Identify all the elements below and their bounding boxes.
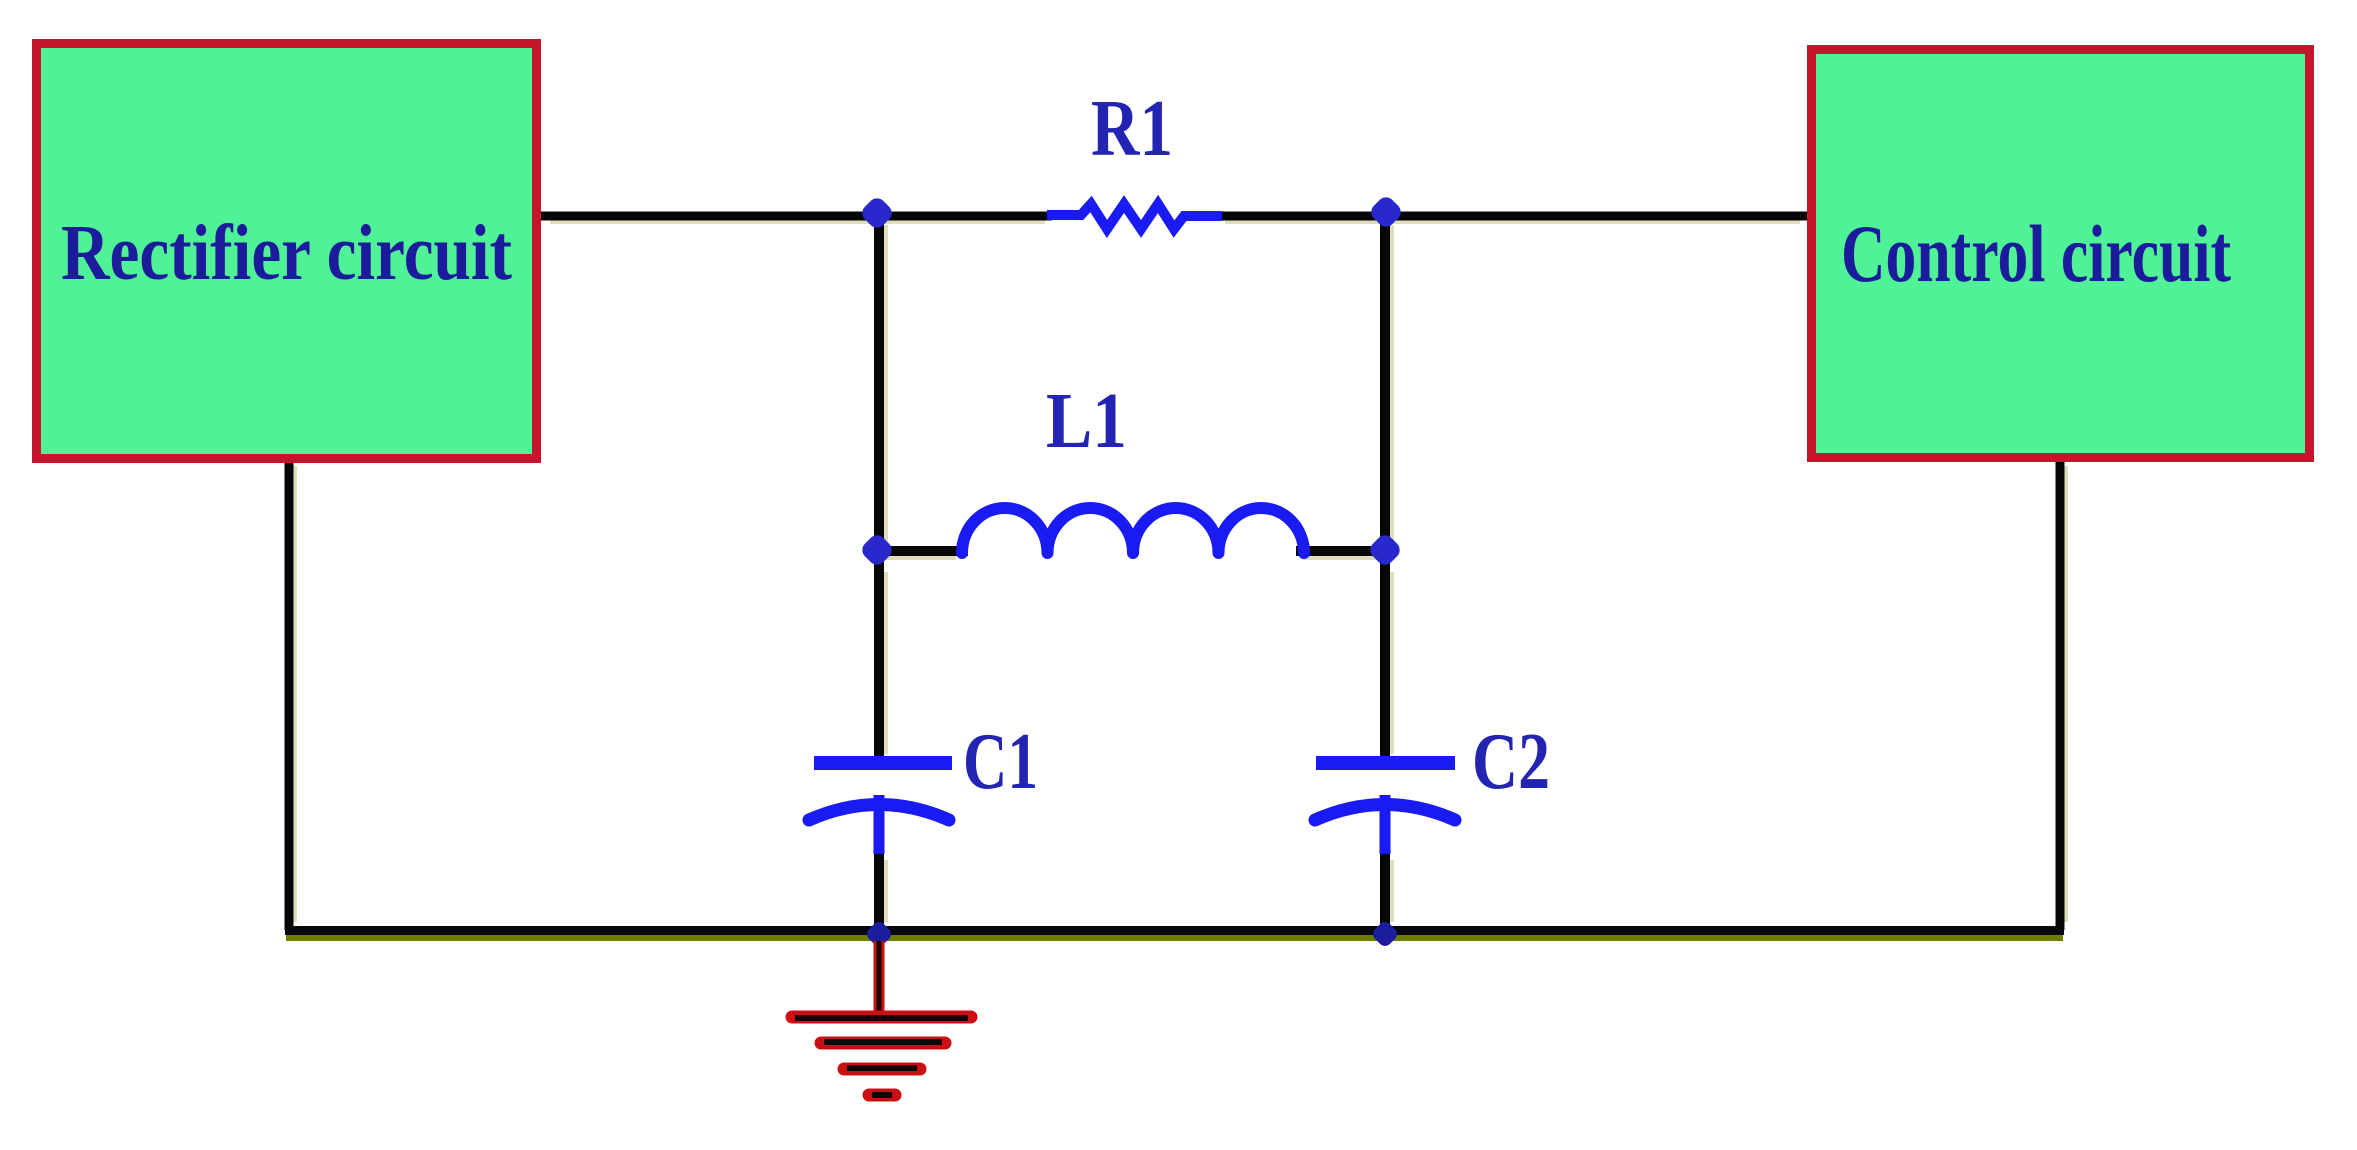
node: ground bus right junction: [1370, 919, 1400, 949]
resistor R1: [1047, 204, 1222, 229]
svg-text:Rectifier circuit: Rectifier circuit: [61, 210, 512, 297]
svg-text:L1: L1: [1046, 378, 1127, 465]
node A (top-left junction): [859, 195, 896, 232]
wire: L1 to right stub: [1302, 556, 1380, 560]
wire: rectifier bottom drop to ground bus: [293, 466, 297, 922]
node: L1 right junction: [1367, 532, 1404, 569]
wire: R1 to control circuit input: [1225, 220, 1800, 224]
ground: [874, 941, 885, 1016]
svg-text:C2: C2: [1472, 718, 1550, 806]
capacitor C1: [814, 756, 952, 770]
wire: left stub to L1: [884, 556, 956, 560]
svg-text:C1: C1: [963, 718, 1038, 806]
wire: C1 bottom to ground bus: [884, 860, 888, 922]
node: ground bus left junction: [864, 919, 894, 949]
capacitor C2: [1316, 756, 1455, 770]
wire: rectifier output to node A: [550, 220, 1045, 224]
block: Rectifier circuit: [37, 44, 537, 459]
node B (top-right junction): [1368, 194, 1405, 231]
node: L1 left junction: [859, 532, 896, 569]
wire: ground bus: [286, 935, 2063, 941]
wire: node A down to C1 top plate: [884, 225, 888, 544]
svg-text:R1: R1: [1091, 85, 1173, 173]
svg-text:Control circuit: Control circuit: [1841, 208, 2231, 299]
wire: C2 bottom to ground bus: [1390, 860, 1394, 922]
wire: node B down to C2 top plate: [1390, 225, 1394, 544]
wire: control circuit bottom drop to ground bus: [2064, 466, 2068, 922]
block: Control circuit: [1812, 50, 2310, 458]
inductor L1: [962, 508, 1304, 553]
